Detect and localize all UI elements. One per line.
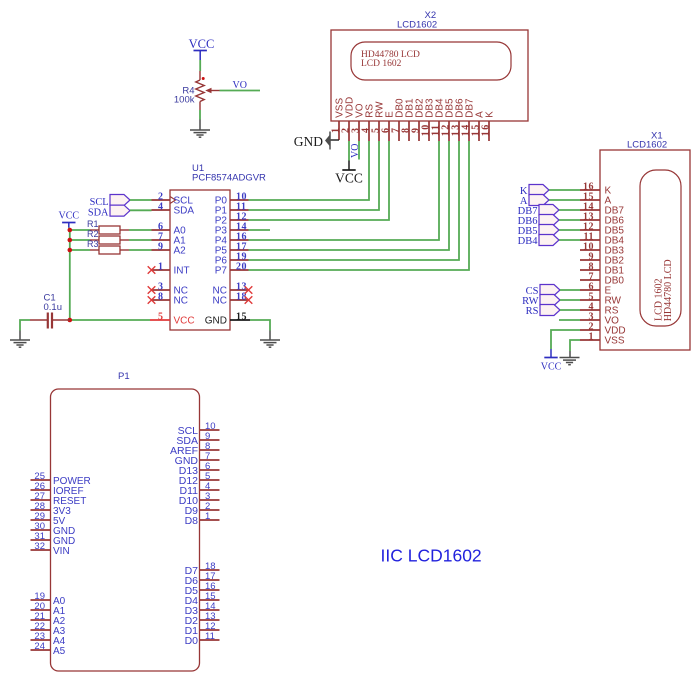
wire RS flag to X1: [560, 309, 580, 311]
capacitor C1: [51, 313, 53, 329]
P1 pin 25 POWER: [31, 479, 51, 481]
P1 pin 32 VIN: [31, 549, 51, 551]
wire junction to U1 VCC pin 5: [70, 319, 150, 321]
U1 pin 8 NC: [152, 299, 171, 301]
svg-text:GND: GND: [294, 134, 323, 149]
wire K flag to X1: [549, 189, 580, 191]
no-connect X on U1 INT pin 1: [148, 266, 156, 274]
X1 pin 14 DB7: [580, 209, 600, 211]
P1 pin 28 3V3: [31, 509, 51, 511]
P1 pin 16 D5: [200, 589, 220, 591]
P1 pin 5 D12: [200, 479, 220, 481]
ground symbol below X1: [560, 358, 580, 365]
P1 pin 19 A0: [31, 599, 51, 601]
svg-text:VO: VO: [350, 144, 361, 158]
wire X2 DB6 to U1 P6: [249, 141, 460, 260]
ground pin: [569, 351, 571, 358]
net flag DB5: [539, 225, 559, 236]
X2 pin 12 DB5: [448, 121, 450, 141]
no-connect X on U1 NC pin 13: [245, 286, 253, 294]
svg-text:8: 8: [158, 292, 164, 303]
wire X1 VO stub: [559, 319, 580, 321]
wire X2 VO stub: [358, 141, 360, 160]
X1 pin 5 RW: [580, 299, 600, 301]
wire DB6 flag to X1: [559, 219, 580, 221]
P1 pin 22 A3: [31, 629, 51, 631]
net flag DB4: [539, 235, 559, 246]
wire X2 DB4 to U1 P4: [249, 141, 440, 240]
P1 pin 15 D4: [200, 599, 220, 601]
X1 pin 10 DB3: [580, 249, 600, 251]
U1 pin 13 NC: [230, 289, 249, 291]
U1 pin 18 NC: [230, 299, 249, 301]
X2 pin 10 DB3: [428, 121, 430, 141]
P1 pin 14 D3: [200, 609, 220, 611]
svg-text:VCC: VCC: [541, 362, 562, 373]
svg-text:A2: A2: [174, 246, 187, 257]
U1 pin 11 P1: [230, 209, 249, 211]
resistor R3: [99, 246, 120, 254]
net flag K: [529, 185, 549, 196]
IC U1 PCF8574ADGVR body: [170, 190, 230, 330]
P1 pin 27 RESET: [31, 499, 51, 501]
X2 pin 13 DB6: [458, 121, 460, 141]
P1 pin 11 D0: [200, 639, 220, 641]
wire C1 to ground: [20, 320, 30, 331]
wire rail to R1: [70, 229, 90, 231]
wire VO from R4 wiper: [220, 90, 261, 92]
net flag CS: [540, 285, 560, 296]
P1 pin 3 D10: [200, 499, 220, 501]
ground symbol below U1: [260, 340, 280, 347]
wire R3 to U1 pin 9: [129, 249, 152, 251]
wire U1 P3 stub: [249, 229, 271, 231]
svg-text:4: 4: [158, 202, 164, 213]
X2 pin 7 DB0: [398, 121, 400, 141]
svg-text:P7: P7: [215, 266, 228, 277]
svg-text:R3: R3: [87, 239, 99, 249]
P1 pin 10 SCL: [200, 429, 220, 431]
svg-text:5: 5: [158, 312, 164, 323]
P1 pin 23 A4: [31, 639, 51, 641]
svg-text:SDA: SDA: [174, 206, 195, 217]
P1 pin 24 A5: [31, 649, 51, 651]
P1 pin 6 D13: [200, 469, 220, 471]
VCC T-bar at R4: [194, 50, 207, 52]
VCC T-bar below X2: [342, 169, 355, 171]
U1 pin 16 P4: [230, 239, 249, 241]
junction at C1: [68, 318, 73, 323]
X2 pin 6 E: [388, 121, 390, 141]
X1 pin 13 DB6: [580, 219, 600, 221]
ground pin: [199, 120, 201, 131]
U1 pin 9 A2: [152, 249, 171, 251]
svg-text:LCD1602: LCD1602: [627, 140, 667, 151]
U1 pin 17 P5: [230, 249, 249, 251]
X2 pin 1 VSS: [338, 121, 340, 140]
svg-text:1: 1: [589, 332, 595, 343]
U1 pin 5 VCC: [150, 319, 170, 321]
wire X2 E to U1 P2: [249, 141, 390, 220]
svg-text:D8: D8: [185, 515, 199, 527]
ground pin: [269, 331, 271, 341]
R3 left lead: [90, 249, 99, 251]
net flag DB6: [539, 215, 559, 226]
wire CS flag to X1: [560, 289, 580, 291]
junction on rail row R3: [68, 248, 73, 253]
svg-text:NC: NC: [213, 296, 227, 307]
R1 left lead: [90, 229, 99, 231]
U1 pin 3 NC: [152, 289, 171, 291]
svg-text:16: 16: [481, 123, 492, 136]
LCD module X1: [600, 150, 690, 350]
X1 pin 3 VO: [580, 319, 600, 321]
X2 pin 15 A: [478, 121, 480, 141]
GND flag at X2 pin 1: [331, 139, 340, 141]
svg-text:INT: INT: [174, 266, 190, 277]
svg-text:0.1u: 0.1u: [44, 302, 63, 313]
svg-text:20: 20: [236, 262, 247, 273]
net flag A: [529, 195, 549, 206]
no-connect X on U1 NC pin 3: [148, 286, 156, 294]
net flag RW: [540, 295, 560, 306]
U1 pin 6 A0: [152, 229, 171, 231]
wire X1 VSS to ground: [570, 340, 580, 351]
wire rail to R2: [70, 239, 90, 241]
svg-text:11: 11: [205, 631, 215, 642]
svg-text:HD44780 LCD: HD44780 LCD: [663, 259, 674, 321]
P1 pin 2 D9: [200, 509, 220, 511]
net flag SDA: [110, 205, 130, 216]
P1 pin 21 A2: [31, 619, 51, 621]
svg-text:SCL: SCL: [90, 197, 109, 208]
X1 pin 8 DB1: [580, 269, 600, 271]
wire R2 to U1 pin 7: [129, 239, 152, 241]
VCC symbol pin: [68, 223, 70, 228]
svg-text:NC: NC: [174, 296, 188, 307]
U1 pin 7 A1: [152, 239, 171, 241]
X2 pin 11 DB4: [438, 121, 440, 141]
svg-text:GND: GND: [205, 316, 227, 327]
svg-text:RS: RS: [526, 306, 539, 317]
svg-text:DB4: DB4: [518, 236, 539, 247]
wire DB5 flag to X1: [559, 229, 580, 231]
wire rail to R3: [70, 249, 90, 251]
X1 pin 7 DB0: [580, 279, 600, 281]
power symbol VCC below X1: [550, 349, 552, 358]
P1 pin 18 D7: [200, 569, 220, 571]
X1 pin 16 K: [580, 189, 600, 191]
U1 SCL clock mark: [170, 197, 176, 204]
U1 pin 10 P0: [230, 199, 249, 201]
X1 pin 12 DB5: [580, 229, 600, 231]
U1 pin 15 GND: [230, 319, 250, 321]
R2 left lead: [90, 239, 99, 241]
X2 pin 3 VO: [358, 121, 360, 141]
ground symbol below C1: [10, 340, 30, 347]
svg-text:VCC: VCC: [59, 211, 80, 222]
U1 pin 4 SDA: [152, 209, 171, 211]
X1 pin 1 VSS: [580, 339, 600, 341]
X2 pin 16 K: [488, 121, 490, 141]
svg-text:D0: D0: [185, 635, 199, 647]
svg-text:VCC: VCC: [174, 316, 195, 327]
svg-text:P1: P1: [118, 371, 130, 382]
C1 right lead: [53, 319, 70, 321]
svg-text:VCC: VCC: [335, 171, 363, 186]
X2 pin 5 RW: [378, 121, 380, 141]
wire SDA flag to U1 pin 4: [130, 209, 152, 211]
power symbol VCC below X2 pin 2: [348, 161, 350, 171]
X2 pin 14 DB7: [468, 121, 470, 141]
P1 pin 13 D2: [200, 619, 220, 621]
wire X2 RS to U1 P0: [249, 141, 370, 200]
svg-text:100k: 100k: [174, 95, 195, 106]
svg-text:R2: R2: [87, 229, 99, 239]
X1 pin 15 A: [580, 199, 600, 201]
C1 left lead: [30, 319, 48, 321]
P1 pin 1 D8: [200, 519, 220, 521]
wire VCC to R4 top: [199, 60, 201, 71]
X2 pin 9 DB2: [418, 121, 420, 141]
svg-text:SDA: SDA: [88, 208, 109, 219]
svg-text:15: 15: [236, 312, 247, 323]
VCC T-bar below X1: [544, 357, 557, 359]
U1 pin 2 SCL: [152, 199, 171, 201]
LCD module X2: [331, 30, 528, 121]
wire RW flag to X1: [560, 299, 580, 301]
wire A flag to X1: [549, 199, 580, 201]
P1 pin 4 D11: [200, 489, 220, 491]
svg-text:IIC LCD1602: IIC LCD1602: [381, 546, 482, 566]
net flag RS: [540, 305, 560, 316]
svg-text:VO: VO: [233, 80, 247, 91]
svg-text:32: 32: [34, 541, 45, 552]
X2 pin 2 VDD: [348, 121, 350, 141]
X1 pin 9 DB2: [580, 259, 600, 261]
wire U1 GND pin 15 to ground: [250, 320, 270, 331]
wire X1 VDD to VCC: [551, 330, 580, 349]
net flag DB7: [539, 205, 559, 216]
X1 pin 6 E: [580, 289, 600, 291]
wire DB7 flag to X1: [559, 209, 580, 211]
ground symbol below R4: [190, 130, 210, 137]
svg-text:LCD 1602: LCD 1602: [361, 59, 402, 69]
R1 right lead: [120, 229, 129, 231]
svg-text:24: 24: [34, 641, 45, 652]
svg-text:VIN: VIN: [53, 546, 70, 557]
X2 pin 8 DB1: [408, 121, 410, 141]
wire X2 DB5 to U1 P5: [249, 141, 450, 250]
VCC T-bar at rail: [62, 222, 75, 224]
P1 pin 8 AREF: [200, 449, 220, 451]
wire R4 bottom to ground: [199, 110, 201, 120]
X1 pin 4 RS: [580, 309, 600, 311]
resistor R2: [99, 236, 120, 244]
junction on rail row R2: [68, 238, 73, 243]
P1 pin 9 SDA: [200, 439, 220, 441]
svg-text:R1: R1: [87, 219, 99, 229]
X2 pin 4 RS: [368, 121, 370, 141]
wire DB4 flag to X1: [559, 239, 580, 241]
svg-text:1: 1: [158, 262, 164, 273]
U1 pin 14 P3: [230, 229, 249, 231]
ground pin: [19, 331, 21, 341]
wire SCL flag to U1 pin 2: [130, 199, 152, 201]
U1 pin 1 INT: [152, 269, 171, 271]
svg-text:K: K: [485, 111, 496, 118]
U1 pin 19 P6: [230, 259, 249, 261]
svg-text:1: 1: [205, 511, 210, 522]
no-connect X on U1 NC pin 18: [245, 296, 253, 304]
svg-text:9: 9: [158, 242, 164, 253]
P1 pin 26 IOREF: [31, 489, 51, 491]
svg-text:A5: A5: [53, 646, 66, 657]
wire X2 RW to U1 P1: [249, 141, 380, 210]
R4 wiper arrow: [205, 88, 211, 94]
X1 pin 2 VDD: [580, 329, 600, 331]
U1 pin 20 P7: [230, 269, 249, 271]
P1 pin 17 D6: [200, 579, 220, 581]
VCC symbol pin: [199, 51, 201, 61]
net flag SCL: [110, 195, 130, 206]
svg-text:VCC: VCC: [189, 37, 215, 51]
no-connect X on U1 NC pin 8: [148, 296, 156, 304]
P1 pin 12 D1: [200, 629, 220, 631]
wire X2 VDD down: [348, 141, 350, 161]
junction on rail row R1: [68, 228, 73, 233]
R2 right lead: [120, 239, 129, 241]
svg-text:VSS: VSS: [605, 336, 625, 347]
svg-text:LCD1602: LCD1602: [397, 20, 437, 31]
wire X2 DB7 to U1 P7: [249, 141, 470, 270]
connector P1 body: [51, 389, 200, 671]
U1 pin 12 P2: [230, 219, 249, 221]
resistor R1: [99, 226, 120, 234]
potentiometer R4: [199, 71, 201, 80]
wire VCC rail vertical: [69, 230, 71, 320]
P1 pin 7 GND: [200, 459, 220, 461]
P1 pin 29 5V: [31, 519, 51, 521]
P1 pin 31 GND: [31, 539, 51, 541]
P1 pin 30 GND: [31, 529, 51, 531]
svg-text:PCF8574ADGVR: PCF8574ADGVR: [192, 173, 266, 184]
X1 pin 11 DB4: [580, 239, 600, 241]
P1 pin 20 A1: [31, 609, 51, 611]
R3 right lead: [120, 249, 129, 251]
wire R1 to U1 pin 6: [129, 229, 152, 231]
